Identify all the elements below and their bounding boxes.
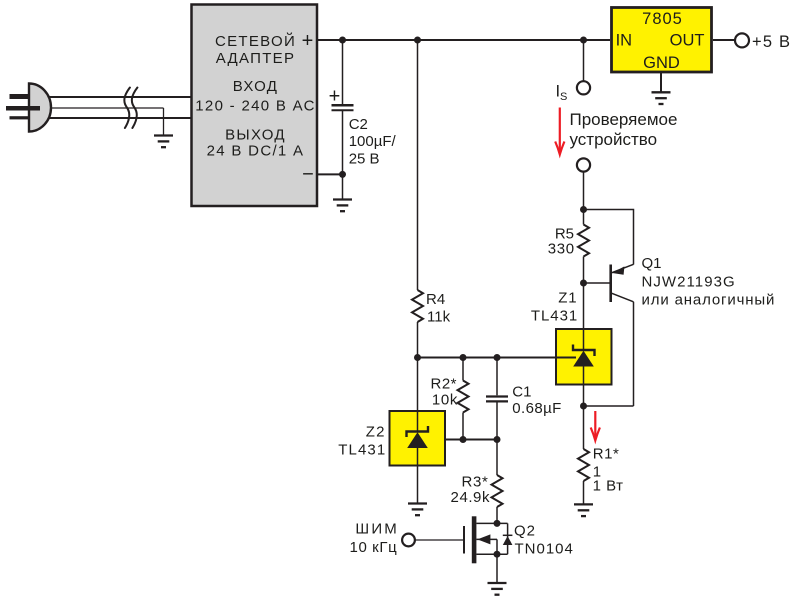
power supply module: СЕТЕВОЙ АДАПТЕР box xyxy=(192,5,318,207)
node: Z1 anode / Q1 collector junction xyxy=(580,403,587,410)
svg-text:C1: C1 xyxy=(512,384,531,401)
resistor R1* 1 1Вт xyxy=(578,406,623,504)
wire: 7805 GND stub xyxy=(660,73,662,92)
capacitor C2 100uF/25V xyxy=(329,40,397,174)
node: Q2 drain junction xyxy=(494,520,501,527)
svg-text:АДАПТЕР: АДАПТЕР xyxy=(216,50,296,67)
svg-text:100µF/: 100µF/ xyxy=(349,133,397,150)
wire: earth stub xyxy=(163,108,165,136)
resistor R5 330 xyxy=(548,210,589,284)
svg-text:24 В DC/1 А: 24 В DC/1 А xyxy=(207,142,305,159)
node: rail A / R2 junction xyxy=(460,354,467,361)
svg-text:ВЫХОД: ВЫХОД xyxy=(225,126,286,143)
resistor R4 11k xyxy=(412,40,451,358)
cable break mark xyxy=(124,88,137,129)
terminal: DUT return xyxy=(577,158,590,171)
wire: reference rail A xyxy=(418,357,577,359)
svg-text:0.68µF: 0.68µF xyxy=(512,400,561,417)
terminal: +5V output xyxy=(735,33,749,47)
transistor Q2 TN0104 (N-MOSFET) xyxy=(464,516,512,563)
svg-text:R1*: R1* xyxy=(593,446,620,463)
svg-text:C2: C2 xyxy=(349,116,368,133)
transistor Q1 NJW21193G (PNP) xyxy=(611,264,634,302)
current arrow IS (red) xyxy=(555,108,564,155)
ground (Z2) xyxy=(408,504,427,516)
svg-text:или аналогичный: или аналогичный xyxy=(642,291,776,308)
node: +24V / C2 junction xyxy=(339,37,346,44)
svg-text:Q1: Q1 xyxy=(642,255,662,272)
svg-text:+: + xyxy=(329,86,341,108)
svg-text:11k: 11k xyxy=(427,309,451,326)
svg-text:120 - 240 В АС: 120 - 240 В АС xyxy=(195,98,315,115)
voltage regulator U1 7805 xyxy=(612,8,712,73)
current arrow through R1 (red) xyxy=(591,411,600,441)
node: rail B / R2 junction xyxy=(460,436,467,443)
wire: reference rail B xyxy=(423,439,497,441)
svg-text:R4: R4 xyxy=(426,291,445,308)
svg-text:Z1: Z1 xyxy=(558,289,577,306)
node: rail A / C1 junction xyxy=(494,354,501,361)
wire: plug line wire (top) xyxy=(46,96,191,98)
wire: to Q1 emitter xyxy=(584,210,634,265)
svg-text:Z2: Z2 xyxy=(366,424,386,441)
capacitor C1 0.68uF xyxy=(486,358,562,440)
svg-text:NJW21193G: NJW21193G xyxy=(642,274,736,291)
ground (C2) xyxy=(333,200,352,212)
svg-text:R2*: R2* xyxy=(430,376,457,393)
wire: Q2 source to ground xyxy=(496,554,498,583)
svg-text:TN0104: TN0104 xyxy=(515,540,574,557)
node: Q2 source junction xyxy=(494,551,501,558)
node: +24V / R4 junction xyxy=(414,37,421,44)
node: R5/Q1 emitter junction xyxy=(580,206,587,213)
svg-text:24.9k: 24.9k xyxy=(451,489,490,506)
svg-text:+: + xyxy=(302,30,314,52)
AC mains plug P1 xyxy=(6,84,51,132)
svg-text:R3*: R3* xyxy=(461,473,488,490)
node: R5/Q1 base junction xyxy=(580,280,587,287)
ground (R1) xyxy=(574,504,593,516)
svg-text:СЕТЕВОЙ: СЕТЕВОЙ xyxy=(215,32,296,50)
wire: DUT return to node xyxy=(583,172,585,210)
wire: plug neutral wire (bottom) xyxy=(46,117,191,119)
wire: base wire xyxy=(584,282,610,284)
wire: plug earth wire (middle) xyxy=(46,107,164,109)
svg-text:7805: 7805 xyxy=(642,10,683,28)
terminal: PWM input xyxy=(402,534,415,547)
wire: Q1 collector down xyxy=(633,302,635,406)
svg-text:Q2: Q2 xyxy=(514,523,536,540)
svg-text:IN: IN xyxy=(616,32,633,50)
svg-text:1 Вт: 1 Вт xyxy=(593,478,624,495)
wire: +24V top rail xyxy=(317,39,610,41)
svg-text:330: 330 xyxy=(548,241,575,258)
svg-text:−: − xyxy=(302,163,314,185)
svg-text:S: S xyxy=(560,91,567,103)
svg-text:OUT: OUT xyxy=(670,32,705,50)
node: 0V / C2 junction xyxy=(339,171,346,178)
shunt regulator Z2 TL431 xyxy=(390,358,446,504)
shunt regulator Z1 TL431 xyxy=(556,283,612,406)
svg-text:+5 В: +5 В xyxy=(752,33,791,51)
ground (7805) xyxy=(652,92,671,104)
svg-text:TL431: TL431 xyxy=(531,308,578,325)
svg-text:ВХОД: ВХОД xyxy=(233,78,279,95)
ground (Q2) xyxy=(488,583,507,595)
svg-text:ШИМ: ШИМ xyxy=(355,521,399,538)
resistor R2* 10k xyxy=(430,358,468,440)
wire: gate lead xyxy=(415,539,464,541)
svg-text:10 кГц: 10 кГц xyxy=(350,539,398,556)
wire: 0V bottom rail xyxy=(317,173,343,175)
node: +24V / IS junction xyxy=(580,37,587,44)
svg-text:устройство: устройство xyxy=(570,130,658,149)
wire: IS stub xyxy=(583,40,585,81)
wire: 7805 OUT lead xyxy=(713,39,735,41)
node: rail B / C1-R3 junction xyxy=(494,436,501,443)
svg-text:Проверяемое: Проверяемое xyxy=(570,110,678,129)
svg-text:25 В: 25 В xyxy=(349,150,380,167)
wire: collector to junction xyxy=(584,405,634,407)
terminal: IS (current sink input) xyxy=(577,81,590,94)
wire: C2 ground stub xyxy=(342,174,344,199)
svg-text:GND: GND xyxy=(643,54,680,72)
svg-text:10k: 10k xyxy=(432,392,458,409)
resistor R3* 24.9k xyxy=(451,440,503,524)
node: rail A / R4-Z2 junction xyxy=(414,354,421,361)
svg-text:TL431: TL431 xyxy=(338,442,386,459)
ground (mains earth) xyxy=(154,136,173,148)
